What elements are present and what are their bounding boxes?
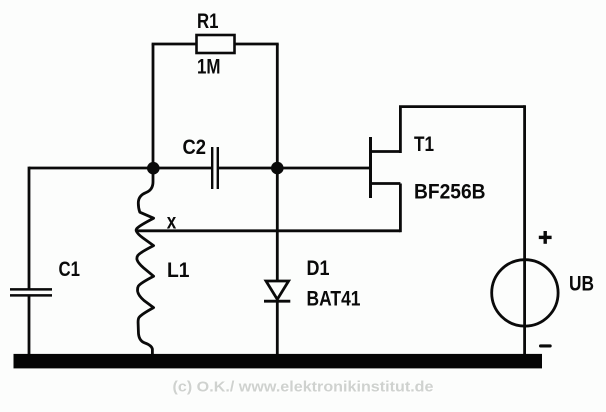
svg-text:1M: 1M (197, 55, 221, 78)
wire: right rail from top rail down to ground bar (523, 105, 526, 356)
svg-text:R1: R1 (197, 10, 219, 33)
svg-text:D1: D1 (307, 257, 330, 280)
ground bar (14, 354, 543, 369)
inductor L1 (136, 168, 153, 355)
wire: source down to tap line (399, 184, 402, 233)
wire: C2 right plate to transistor gate (218, 167, 371, 170)
wire: diode cathode down to ground bar (276, 301, 279, 356)
wire: top loop left vertical (R1 left lead down to node A) (152, 44, 155, 168)
resistor R1 (197, 35, 235, 53)
svg-text:L1: L1 (167, 259, 190, 282)
svg-text:x: x (167, 211, 177, 234)
wire: top rail to UB plus (399, 105, 525, 108)
svg-text:UB: UB (569, 273, 594, 296)
plus sign (539, 231, 552, 244)
capacitor C2 (212, 147, 218, 189)
wire: top loop horizontal right of R1 (234, 43, 279, 46)
transistor T1 channel bar (369, 137, 372, 198)
transistor T1 drain stub (369, 150, 400, 153)
wire: top loop right vertical (R1 right lead down to node B) (276, 44, 279, 168)
wire: node B down to diode D1 anode (276, 168, 279, 281)
transistor T1 source stub (369, 182, 400, 185)
wire: main horizontal net, left rail top to C2 left plate (29, 167, 212, 170)
wire: top loop horizontal left of R1 (152, 43, 197, 46)
svg-text:C1: C1 (59, 258, 81, 281)
svg-text:(c) O.K./ www.elektronikinstit: (c) O.K./ www.elektronikinstitut.de (173, 379, 434, 396)
node B junction dot (271, 162, 284, 175)
wire: left rail vertical below C1 (28, 296, 31, 356)
wire: left rail vertical above C1 (28, 167, 31, 289)
node A junction dot (147, 162, 160, 175)
svg-text:BF256B: BF256B (414, 180, 486, 203)
minus sign (539, 344, 552, 347)
wire: drain up to top rail (399, 107, 402, 153)
watermark copyright text (173, 379, 435, 397)
voltage source UB circle (492, 260, 558, 326)
capacitor C1 (10, 289, 52, 295)
svg-text:BAT41: BAT41 (307, 287, 361, 310)
wire: tap line from coil tap x to source lead (137, 229, 401, 232)
diode D1 (264, 281, 290, 301)
svg-text:T1: T1 (414, 133, 434, 156)
svg-text:C2: C2 (183, 136, 207, 159)
